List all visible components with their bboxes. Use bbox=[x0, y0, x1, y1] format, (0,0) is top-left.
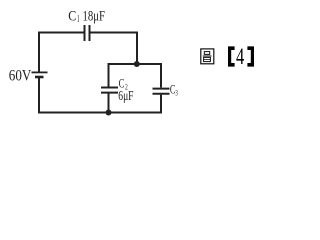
battery 60V bbox=[32, 72, 48, 77]
label C2 bbox=[119, 76, 128, 91]
svg-text:1: 1 bbox=[77, 14, 80, 25]
wire C2 branch upper bbox=[108, 63, 110, 87]
node junction bottom bbox=[106, 110, 112, 116]
wire C3 branch upper bbox=[160, 63, 162, 88]
wire left vertical lower bbox=[39, 77, 109, 114]
svg-text:60V: 60V bbox=[9, 68, 32, 85]
wire right vertical to node bbox=[136, 32, 138, 65]
figure caption glyph 圖 bbox=[201, 49, 214, 64]
wire C2 branch lower bbox=[108, 94, 110, 113]
label C3 bbox=[170, 83, 178, 98]
wire C3 branch lower bbox=[160, 95, 162, 114]
capacitor C2 bbox=[101, 88, 118, 93]
node junction top bbox=[134, 61, 140, 67]
label C1 18uF bbox=[68, 8, 105, 25]
svg-text:3: 3 bbox=[175, 88, 177, 98]
wire middle bus bbox=[109, 63, 162, 65]
wire top-right segment bbox=[91, 32, 138, 34]
svg-text:4: 4 bbox=[236, 44, 244, 70]
capacitor C3 bbox=[153, 89, 170, 94]
figure caption bracket 】 bbox=[247, 46, 254, 66]
wire top-left segment bbox=[39, 33, 84, 73]
svg-text:18μF: 18μF bbox=[83, 8, 106, 24]
svg-text:C: C bbox=[68, 8, 76, 24]
wire bottom bbox=[39, 112, 161, 114]
svg-text:6μF: 6μF bbox=[118, 89, 133, 104]
figure caption bracket 【 bbox=[228, 46, 235, 66]
capacitor C1 bbox=[85, 25, 90, 41]
